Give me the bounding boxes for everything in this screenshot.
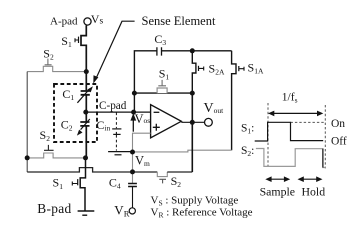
svg-text:Off: Off: [331, 136, 347, 148]
svg-text:A-pad: A-pad: [50, 15, 78, 27]
svg-text:Sample: Sample: [260, 185, 295, 199]
svg-text:VR : Reference Voltage: VR : Reference Voltage: [151, 207, 253, 220]
svg-text:Hold: Hold: [302, 185, 326, 199]
svg-text:C-pad: C-pad: [99, 100, 127, 112]
svg-text:B-pad: B-pad: [37, 201, 71, 216]
svg-text:Sense Element: Sense Element: [142, 14, 216, 28]
svg-text:On: On: [331, 118, 345, 130]
